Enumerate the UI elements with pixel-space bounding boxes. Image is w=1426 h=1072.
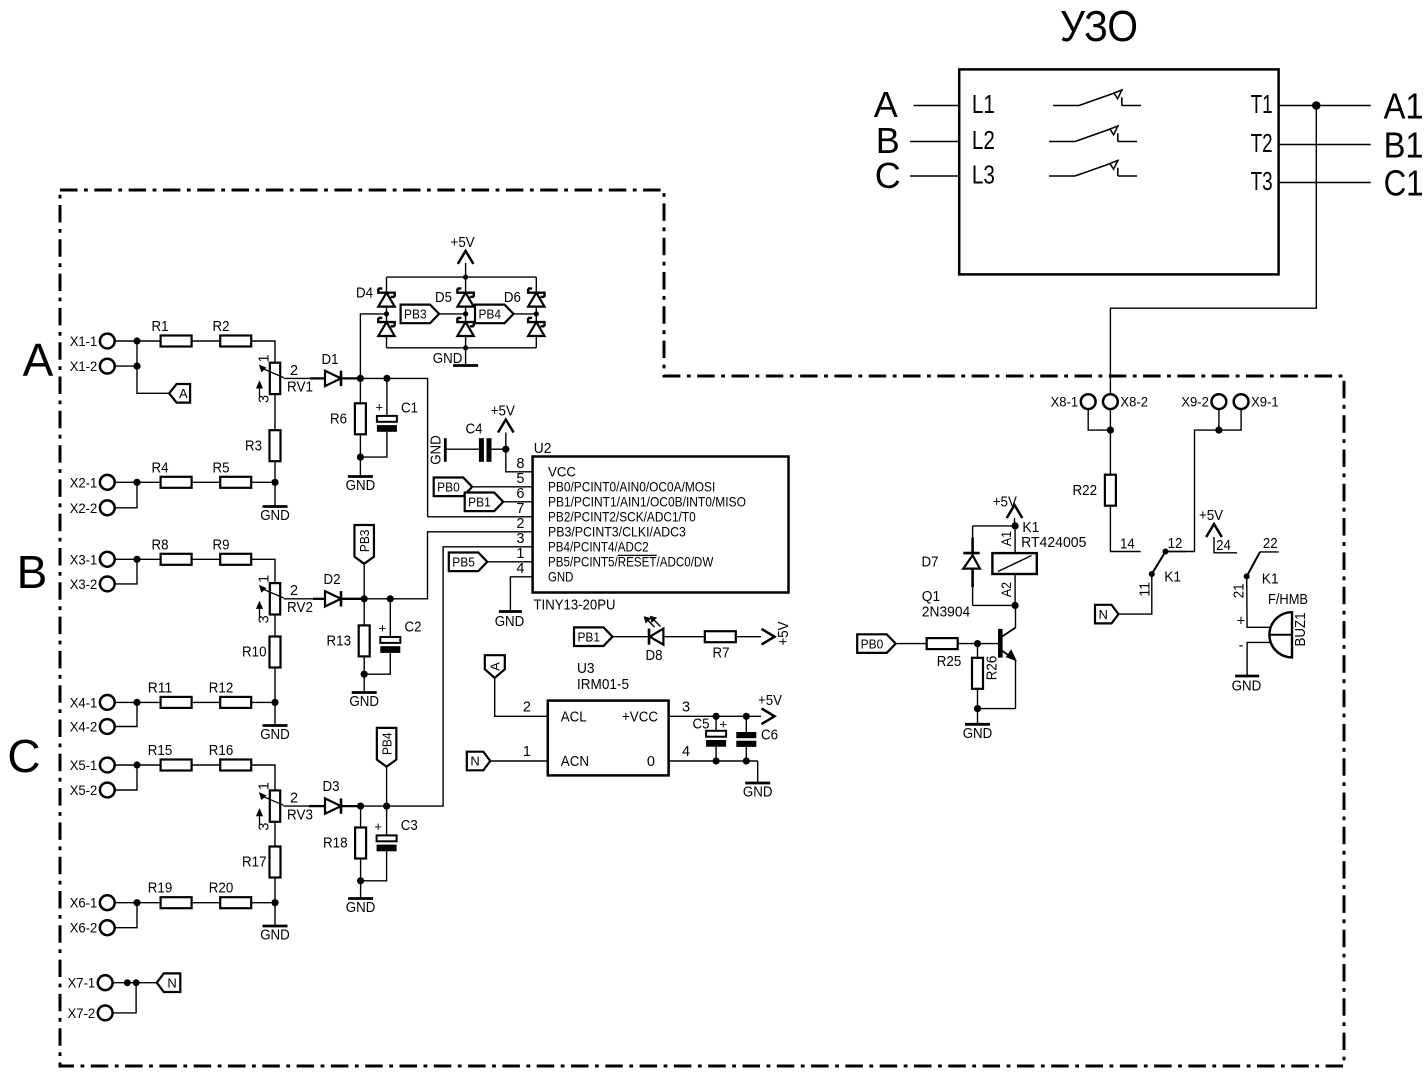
junction C3 top (383, 803, 390, 810)
wire T1 out (1279, 105, 1371, 107)
wire D5 column top (465, 277, 467, 293)
svg-text:8: 8 (516, 456, 524, 472)
svg-text:A: A (23, 334, 54, 386)
junction C6 bottom (743, 757, 750, 764)
svg-text:+5V: +5V (758, 693, 782, 709)
svg-text:R18: R18 (323, 836, 348, 852)
svg-text:3: 3 (257, 615, 273, 623)
relay contact K1 pole 2 (1260, 551, 1279, 553)
svg-text:+5V: +5V (776, 621, 792, 645)
wire +5V to contact 24 (1214, 537, 1237, 553)
wire R19-R20 (192, 902, 221, 904)
wire X1-2 stub (115, 365, 138, 367)
RESET overline (618, 554, 657, 556)
svg-text:A: A (874, 84, 898, 125)
svg-text:A1: A1 (999, 531, 1014, 546)
svg-text:R3: R3 (245, 439, 262, 455)
wire X5-1 to R15 (115, 764, 161, 766)
svg-text:L2: L2 (972, 125, 995, 155)
ground below R13 (363, 674, 365, 692)
svg-text:X2-1: X2-1 (70, 475, 98, 491)
junction D2 out (361, 595, 368, 602)
svg-text:+: + (379, 621, 387, 636)
svg-text:D7: D7 (922, 554, 939, 570)
resistor R10 (270, 637, 281, 668)
wire R10 down (274, 668, 276, 703)
svg-text:24: 24 (1216, 538, 1231, 554)
junction D5 mid (463, 311, 468, 316)
connector X9-1 (1234, 394, 1249, 409)
connector X4-1 (100, 695, 115, 710)
junction R5/R3 (271, 479, 278, 486)
svg-text:GND: GND (548, 569, 573, 585)
svg-text:RT424005: RT424005 (1021, 534, 1086, 551)
enclosure dash-dot boundary (60, 190, 1344, 1066)
svg-text:2: 2 (523, 700, 531, 716)
wire X6-2 up (115, 903, 138, 928)
svg-text:14: 14 (1120, 537, 1135, 553)
svg-text:L3: L3 (972, 160, 995, 190)
tag N at X7 (157, 973, 181, 992)
wire X4-2 up (115, 702, 138, 726)
bridge top rail wire (387, 276, 537, 278)
connector X7-1 (98, 975, 113, 990)
wire D6 column top (535, 277, 537, 293)
IC U3 box (548, 701, 669, 776)
wire R5 to junction (251, 481, 275, 483)
svg-text:2: 2 (290, 363, 298, 379)
svg-text:R25: R25 (937, 654, 962, 670)
svg-text:+: + (374, 819, 382, 834)
svg-text:0: 0 (647, 754, 655, 770)
wire X8 to R22 (1109, 430, 1111, 475)
junction VCC (502, 446, 509, 453)
wire X3-1 to R8 (115, 558, 161, 560)
svg-text:21: 21 (1232, 584, 1248, 599)
svg-text:R6: R6 (330, 412, 347, 428)
junction D3 out (357, 803, 364, 810)
wire N tag to pin 1 (490, 760, 548, 762)
svg-text:12: 12 (1168, 536, 1183, 552)
svg-text:X9-2: X9-2 (1181, 395, 1209, 411)
svg-text:C1: C1 (401, 401, 418, 417)
svg-text:K1: K1 (1164, 569, 1181, 586)
svg-text:R1: R1 (152, 319, 169, 335)
junction D4 mid (384, 311, 389, 316)
svg-text:RV2: RV2 (287, 600, 313, 616)
wire RV2 wiper to D2 (284, 598, 313, 600)
svg-text:C6: C6 (761, 728, 778, 744)
svg-text:+: + (376, 400, 384, 415)
wire pin 7 (428, 516, 533, 518)
tag N at contact 11 (1095, 605, 1119, 624)
wire R26 down (977, 689, 979, 709)
svg-text:BUZ1: BUZ1 (1293, 612, 1309, 646)
svg-text:X2-2: X2-2 (70, 501, 98, 517)
capacitor C1 (386, 378, 388, 416)
resistor R7 (705, 631, 736, 642)
IC U2 box (533, 457, 789, 593)
resistor R25 (927, 638, 958, 649)
ground below R12 (274, 702, 276, 725)
wire D1 junction down to R6 (359, 378, 361, 403)
wire buzzer minus to gnd (1247, 642, 1271, 676)
wire R20 to junction (251, 902, 275, 904)
LED arrows (648, 620, 661, 628)
svg-text:22: 22 (1263, 536, 1278, 552)
svg-text:T3: T3 (1251, 166, 1273, 196)
svg-text:X7-2: X7-2 (68, 1006, 96, 1022)
svg-text:U3: U3 (577, 660, 595, 677)
tag PB4 to D6 mid (475, 305, 514, 324)
ground below R5 (274, 482, 276, 506)
junction C5 bottom (713, 757, 720, 764)
connector X3-1 (100, 552, 115, 567)
junction R18 bottom (357, 877, 364, 884)
resistor R4 (161, 477, 192, 488)
wire contact 21 to buzzer + (1247, 576, 1271, 627)
svg-text:R20: R20 (209, 881, 234, 897)
zener D4 lower (378, 318, 394, 326)
diode D3 (325, 798, 341, 813)
ground below R26 (977, 709, 979, 725)
resistor R5 (220, 477, 251, 488)
+5V right arrow at U3 (762, 709, 775, 725)
svg-text:2: 2 (290, 791, 298, 807)
svg-text:GND: GND (346, 900, 376, 916)
wire PB1 to D8 (613, 636, 650, 638)
wire D2 to junction (341, 598, 364, 600)
tag PB0 to R25 (857, 634, 896, 653)
connector X7-2 (98, 1006, 113, 1021)
wire X2-2 up (115, 482, 138, 508)
wire R8-R9 (192, 558, 221, 560)
connector X5-2 (100, 783, 115, 798)
resistor R15 (161, 760, 192, 771)
svg-text:PB4: PB4 (478, 307, 501, 322)
capacitor C5 (715, 716, 717, 731)
wire R9 to RV2 (251, 559, 275, 583)
wire D1 to junction (341, 377, 360, 379)
ground below buzzer (1235, 675, 1259, 678)
resistor R8 (161, 554, 192, 565)
svg-text:R13: R13 (327, 634, 352, 650)
svg-text:A: A (487, 662, 502, 671)
junction C1 top (383, 375, 390, 382)
diode D7 freewheel (973, 525, 1016, 527)
svg-text:PB3: PB3 (404, 307, 427, 322)
wire X9-1 down (1219, 409, 1241, 430)
tag PB1 to pin 6 (465, 493, 504, 512)
svg-text:GND: GND (433, 351, 463, 367)
svg-text:A: A (179, 386, 188, 401)
svg-text:3: 3 (257, 823, 273, 831)
junction R20/R17 (271, 899, 278, 906)
svg-text:R5: R5 (213, 460, 230, 476)
wire RV3 wiper to D3 (284, 805, 309, 807)
+5V at contact 24 (1206, 524, 1222, 537)
resistor R17 (270, 847, 281, 878)
connector X6-1 (100, 895, 115, 910)
wire A tag to pin 2 (495, 678, 548, 716)
wire R7 to +5V (736, 636, 761, 638)
svg-text:PB0/PCINT0/AIN0/OC0A/MOSI: PB0/PCINT0/AIN0/OC0A/MOSI (548, 479, 715, 495)
svg-text:T1: T1 (1251, 89, 1273, 119)
svg-text:2: 2 (516, 516, 524, 532)
svg-text:GND: GND (743, 785, 773, 801)
wire X9-2 down (1218, 409, 1220, 430)
wire X5-2 up (115, 765, 138, 790)
resistor R2 (220, 336, 251, 347)
junction X1-1 (133, 337, 140, 344)
wire D4 mid (386, 307, 388, 323)
svg-text:3: 3 (516, 531, 524, 547)
resistor R16 (220, 760, 251, 771)
junction C5 top (713, 713, 720, 720)
wire R2 to RV1 (251, 341, 275, 363)
wire coil top (1014, 526, 1016, 553)
svg-text:+5V: +5V (451, 235, 475, 251)
resistor R20 (220, 897, 251, 908)
junction on T1 output (1312, 101, 1321, 110)
potentiometer RV2 (270, 583, 280, 614)
wire T3 out (1279, 182, 1371, 184)
svg-text:PB4: PB4 (379, 732, 394, 755)
wire R17 down (274, 878, 276, 903)
svg-text:C: C (7, 730, 40, 782)
wire PB4 tag down (386, 767, 388, 806)
wire R11-R12 (192, 701, 221, 703)
resistor R9 (220, 554, 251, 565)
svg-text:X8-1: X8-1 (1051, 395, 1079, 411)
wire R6 to gnd junction (359, 434, 361, 457)
connector X5-1 (100, 758, 115, 773)
svg-text:R26: R26 (985, 656, 1001, 681)
resistor R3 (270, 430, 281, 461)
svg-text:GND: GND (495, 614, 525, 630)
wire D5 column bottom (465, 336, 467, 348)
wire RV3 pin3 to R17 (274, 822, 276, 847)
tag PB3 above D2 junction (354, 525, 374, 564)
wire C4 to junction (492, 448, 506, 450)
svg-text:+5V: +5V (993, 495, 1017, 511)
wire pin 2 (PB3 net) (390, 532, 532, 599)
wire X7-1 to N tag (113, 982, 157, 984)
svg-text:N: N (470, 754, 479, 769)
zener D4 upper (378, 289, 394, 297)
transistor Q1 (1015, 605, 1017, 627)
svg-text:1: 1 (523, 744, 531, 760)
svg-text:C3: C3 (401, 818, 418, 834)
junction X4-1 (133, 699, 140, 706)
connector X2-2 (100, 500, 115, 515)
wire C to L3 (910, 175, 959, 177)
wire D3 to junction (341, 805, 361, 807)
tag PB0 to pin 5 (434, 478, 473, 497)
svg-text:R11: R11 (148, 680, 173, 696)
wire contact 11 to N tag (1119, 574, 1152, 614)
junction C6 top (743, 713, 750, 720)
wire B to L2 (910, 141, 959, 143)
RCD switch pole 3 (1049, 175, 1075, 177)
ground below U2 (499, 610, 522, 613)
svg-text:X4-2: X4-2 (70, 720, 98, 736)
wire VCC to pin 8 (506, 449, 533, 472)
wire D4 column top (386, 277, 388, 293)
junction X6-1 (133, 899, 140, 906)
svg-text:F/HMB: F/HMB (1268, 592, 1308, 608)
wire X2-1 to R4 (115, 481, 161, 483)
junction X7 a (124, 979, 131, 986)
svg-text:PB3: PB3 (357, 530, 372, 553)
capacitor C2 (389, 599, 391, 637)
capacitor C3 (386, 806, 388, 835)
svg-text:X3-2: X3-2 (70, 577, 98, 593)
svg-text:D2: D2 (324, 572, 341, 588)
wire PB0 to R25 (896, 643, 927, 645)
junction base/R26 (974, 640, 981, 647)
svg-text:U2: U2 (534, 440, 552, 457)
wire +5V to bridge top (465, 263, 467, 277)
zener D6 lower (528, 318, 544, 326)
resistor R18 (355, 828, 366, 859)
wire C1 bottom (360, 432, 387, 457)
svg-text:D4: D4 (356, 286, 373, 302)
wire X7-2 up (113, 983, 137, 1013)
wire R3 to R5 junction (274, 461, 276, 482)
wire +5V to coil (1014, 518, 1016, 526)
wire R18 down (360, 859, 362, 881)
RCD block UZO box (959, 69, 1278, 274)
resistor R13 (359, 625, 370, 656)
junction X7 b (133, 979, 140, 986)
junction coil bottom (1012, 602, 1019, 609)
svg-text:D5: D5 (435, 290, 452, 306)
wire T2 out (1279, 144, 1371, 146)
wire pin 3 +VCC (669, 715, 761, 717)
diode D1 (325, 371, 341, 386)
tag PB3 to D5 mid (401, 305, 440, 324)
svg-text:D3: D3 (323, 779, 340, 795)
svg-text:Q1: Q1 (922, 588, 940, 605)
wire R4-R5 (192, 481, 221, 483)
svg-text:5: 5 (516, 471, 524, 487)
svg-text:RV1: RV1 (287, 380, 313, 396)
svg-text:R7: R7 (713, 646, 730, 662)
+5V above U2 (498, 420, 514, 433)
svg-text:PB1: PB1 (577, 629, 600, 644)
bridge bottom rail wire (387, 347, 537, 349)
wire PB3 tag down (363, 564, 365, 599)
wire A to L1 (914, 105, 960, 107)
capacitor C6 (745, 716, 747, 732)
tag PB5 to pin 1 (449, 553, 488, 572)
wire D4 mid to D1 junction (360, 314, 386, 379)
svg-text:T2: T2 (1251, 128, 1273, 158)
potentiometer RV3 (270, 790, 280, 821)
wire RV1 pin3 to R3 (274, 394, 276, 430)
wire gnd to C4 (445, 448, 479, 450)
svg-text:GND: GND (349, 694, 379, 710)
svg-text:-: - (1239, 638, 1244, 654)
junction X2-1 (133, 479, 140, 486)
svg-text:ACN: ACN (561, 754, 589, 770)
wire RV2 pin3 to R10 (274, 615, 276, 637)
connector X9-2 (1212, 394, 1227, 409)
svg-text:X6-1: X6-1 (70, 896, 98, 912)
junction X9 (1215, 427, 1222, 434)
svg-text:R19: R19 (148, 881, 173, 897)
potentiometer RV1 (270, 363, 280, 394)
wire X1 down to A tag (137, 341, 169, 393)
svg-text:+VCC: +VCC (622, 709, 658, 725)
svg-text:11: 11 (1138, 582, 1154, 597)
wire X8-2 down (1109, 409, 1111, 430)
+5V above relay coil (1007, 505, 1023, 518)
ground below R18 (360, 881, 362, 899)
svg-text:1: 1 (257, 354, 273, 362)
connector X8-2 (1103, 394, 1118, 409)
svg-text:B: B (17, 546, 48, 598)
svg-text:GND: GND (346, 478, 376, 494)
zener D5 lower (457, 318, 473, 326)
ground below R6 (359, 457, 361, 476)
svg-text:C4: C4 (466, 422, 483, 438)
svg-text:PB0: PB0 (437, 480, 460, 495)
svg-text:C1: C1 (1384, 163, 1424, 204)
svg-text:PB0: PB0 (861, 636, 884, 651)
GND symbol left of C4 (rotated) (444, 438, 447, 462)
svg-text:D1: D1 (322, 352, 339, 368)
resistor R22 (1105, 475, 1116, 506)
wire D2 junction to R13 (363, 599, 365, 626)
svg-text:1: 1 (516, 546, 524, 562)
svg-text:1: 1 (257, 575, 273, 583)
svg-text:X8-2: X8-2 (1120, 395, 1148, 411)
wire R22 to contact 14 (1110, 506, 1140, 552)
LED D8 (points left) (648, 629, 651, 645)
wire R25 to base (958, 643, 998, 645)
svg-text:3: 3 (257, 395, 273, 403)
connector X2-1 (100, 475, 115, 490)
wire emitter to gnd junction (978, 708, 1016, 710)
wire R12 to junction (251, 701, 275, 703)
svg-text:X6-2: X6-2 (70, 921, 98, 937)
svg-text:R10: R10 (242, 645, 267, 661)
svg-text:C2: C2 (405, 620, 422, 636)
tag A above U3 (485, 655, 505, 678)
svg-text:R9: R9 (213, 537, 230, 553)
diode D2 (325, 591, 341, 606)
svg-text:X1-1: X1-1 (70, 334, 98, 350)
svg-text:4: 4 (682, 744, 690, 760)
svg-text:GND: GND (963, 726, 993, 742)
wire D4 column bottom (386, 336, 388, 348)
junction X5-1 (133, 761, 140, 768)
wire X1-1 to R1 (115, 340, 161, 342)
svg-text:X9-1: X9-1 (1251, 395, 1279, 411)
RCD switch pole 2 (1049, 141, 1075, 143)
svg-text:2N3904: 2N3904 (922, 604, 970, 621)
wire pin 4 to ground (510, 577, 532, 612)
svg-text:K1: K1 (1262, 571, 1279, 588)
junction R13 bottom (361, 671, 368, 678)
junction X8 (1107, 427, 1114, 434)
svg-text:GND: GND (1232, 679, 1262, 695)
svg-text:C5: C5 (693, 717, 710, 733)
connector X1-1 (100, 334, 115, 349)
svg-text:RV3: RV3 (287, 807, 313, 823)
